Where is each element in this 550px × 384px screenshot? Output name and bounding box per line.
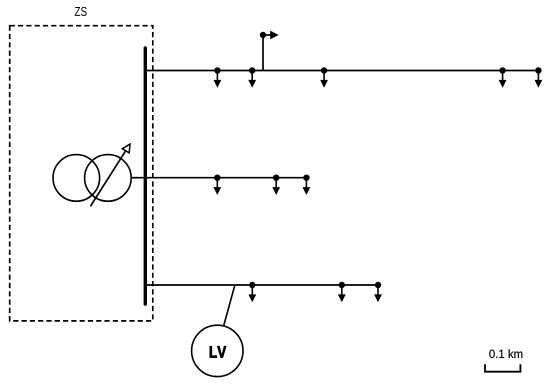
load L11: [374, 282, 382, 303]
LV feeder tap wire: [224, 285, 235, 326]
transformer T1 (two overlapping circles): [53, 155, 131, 202]
label ZS: [75, 7, 87, 16]
busbar: [144, 48, 147, 304]
substation boundary ZS (dashed rectangle): [10, 26, 153, 321]
wire transformer to busbar: [131, 177, 146, 179]
LV network circle: [192, 325, 243, 376]
transformer tap-changer arrow: [91, 144, 131, 206]
label 0.1 km: [489, 349, 522, 358]
load L8: [303, 175, 311, 196]
load L6: [213, 175, 221, 196]
tie arrow (normally-open point): [263, 31, 279, 40]
load L9: [248, 282, 256, 303]
load L2: [248, 67, 256, 88]
load L7: [272, 175, 280, 196]
scale bar bracket: [485, 364, 520, 372]
load L10: [338, 282, 346, 303]
feeder 2 wire: [145, 177, 306, 179]
tie branch wire: [262, 35, 264, 71]
label LV: [210, 346, 226, 357]
load L4: [499, 67, 507, 88]
feeder 3 wire: [145, 284, 378, 286]
load L5: [535, 67, 543, 88]
load L3: [320, 67, 328, 88]
feeder 1 wire: [145, 70, 538, 72]
load L1: [214, 67, 222, 88]
node tie point: [260, 32, 266, 38]
